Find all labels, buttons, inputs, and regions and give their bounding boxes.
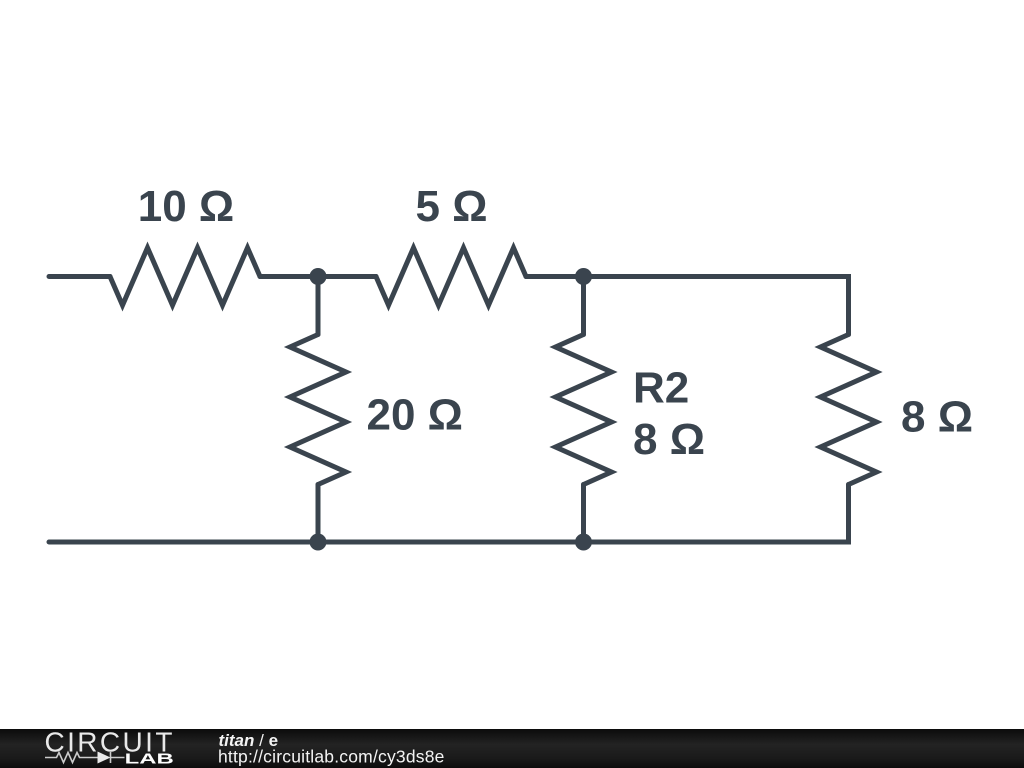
node C (junction dot bottom-left) [310,534,327,551]
wire: R2 bottom lead [581,485,586,543]
resistor 8 Ω right (vertical zigzag) [821,335,877,485]
wire: R2 top lead [581,277,586,335]
svg-text:20 Ω: 20 Ω [367,391,463,440]
wire: node A to 5Ω [318,274,376,279]
svg-text:8 Ω: 8 Ω [633,415,705,464]
node A (junction dot top-left) [310,268,327,285]
node D (junction dot bottom-right) [575,534,592,551]
wire: 20Ω top lead [316,277,321,335]
svg-text:http://circuitlab.com/cy3ds8e: http://circuitlab.com/cy3ds8e [218,747,445,767]
node B (junction dot top-right) [575,268,592,285]
resistor R 10 Ω (horizontal zigzag) [110,248,260,306]
resistor R 5 Ω (horizontal zigzag) [376,248,526,306]
wire: top-left lead [49,274,110,279]
logo resistor squiggle [45,753,98,763]
svg-text:R2: R2 [633,364,689,413]
svg-text:5 Ω: 5 Ω [416,182,488,231]
resistor R2 8 Ω (vertical zigzag) [556,335,612,485]
wire: 5Ω to node B [526,274,584,279]
wire: 10Ω to node A [260,274,318,279]
wire: node B to top-right corner and down [584,277,849,335]
wire: 20Ω bottom lead [316,485,321,543]
svg-text:8 Ω: 8 Ω [901,393,973,442]
footer watermark bar [0,729,1024,768]
resistor 20 Ω (vertical zigzag) [290,335,346,485]
svg-text:LAB: LAB [125,751,174,767]
svg-text:10 Ω: 10 Ω [138,182,234,231]
logo diode symbol [98,752,111,764]
wire: bottom rail and right vertical bottom lead [49,485,849,543]
